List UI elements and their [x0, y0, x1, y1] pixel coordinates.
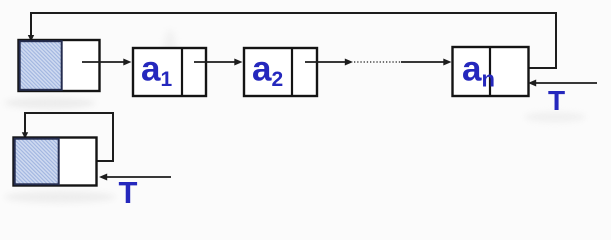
junction arrowhead into header top	[28, 35, 34, 42]
wire: a2.next -> ellipsis arrow	[305, 61, 347, 63]
wire: header.next -> a1	[82, 61, 126, 63]
node an	[453, 47, 529, 96]
soft background smudges	[5, 30, 585, 203]
wire: self loop of empty header node	[25, 113, 113, 161]
svg-text:T: T	[119, 175, 138, 208]
header node (empty list)	[14, 138, 97, 186]
wire: feedback loop from node an pointer field up and across the top into header node	[31, 13, 556, 68]
node a1	[133, 48, 206, 96]
arrowhead into empty header top	[22, 132, 28, 139]
wire: dotted continuation	[354, 61, 401, 63]
wire: pointer T to node an (top list)	[534, 82, 597, 84]
svg-text:T: T	[548, 85, 565, 116]
wire: arrow into node an	[401, 61, 446, 63]
wire: a1.next -> a2	[194, 61, 237, 63]
header node (top list)	[19, 40, 100, 91]
wire: pointer T to empty header	[105, 176, 171, 178]
node a2	[244, 48, 317, 96]
